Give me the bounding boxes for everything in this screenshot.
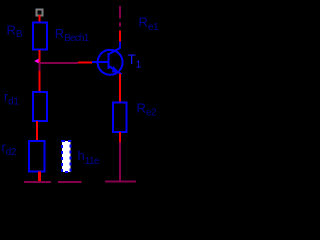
terminal (input square) <box>37 10 43 16</box>
ground bar left <box>24 181 51 183</box>
wire r_d2 to ground <box>38 172 41 183</box>
collector wire purple top <box>119 6 121 19</box>
wire terminal to R_B <box>38 15 40 22</box>
base wire red segment <box>78 61 92 63</box>
wire down to r_d1 (red) <box>38 71 40 92</box>
collector wire purple dash <box>119 23 121 27</box>
collector wire red segment <box>119 31 121 42</box>
resistor R_e2 <box>113 103 127 133</box>
transistor T1 circle <box>98 50 123 75</box>
ground bar right <box>105 181 136 183</box>
transistor T1 base bar <box>108 53 110 69</box>
transistor T1 emitter lead <box>109 66 122 74</box>
base wire purple segment <box>39 62 78 64</box>
resistor r_d1 <box>33 92 47 121</box>
wire R_e2 down red segment <box>119 132 121 142</box>
wire down purple segment <box>119 142 121 182</box>
transistor T1 emitter arrow <box>112 66 120 73</box>
resistor r_d2 <box>29 141 45 172</box>
collector wire blue stub above circle <box>119 41 121 49</box>
node arrow (magenta) <box>34 59 38 64</box>
wire node down (purple segment) <box>39 63 41 72</box>
resistor h11e (white selection box) <box>62 141 71 172</box>
wire r_d1 to r_d2 <box>36 121 38 141</box>
ground bar middle <box>58 181 82 183</box>
emitter wire red <box>119 74 121 103</box>
transistor T1 collector lead <box>108 48 120 55</box>
base wire blue lead <box>92 61 108 63</box>
resistor R_B <box>33 23 47 50</box>
wire R_B to node <box>38 50 40 63</box>
